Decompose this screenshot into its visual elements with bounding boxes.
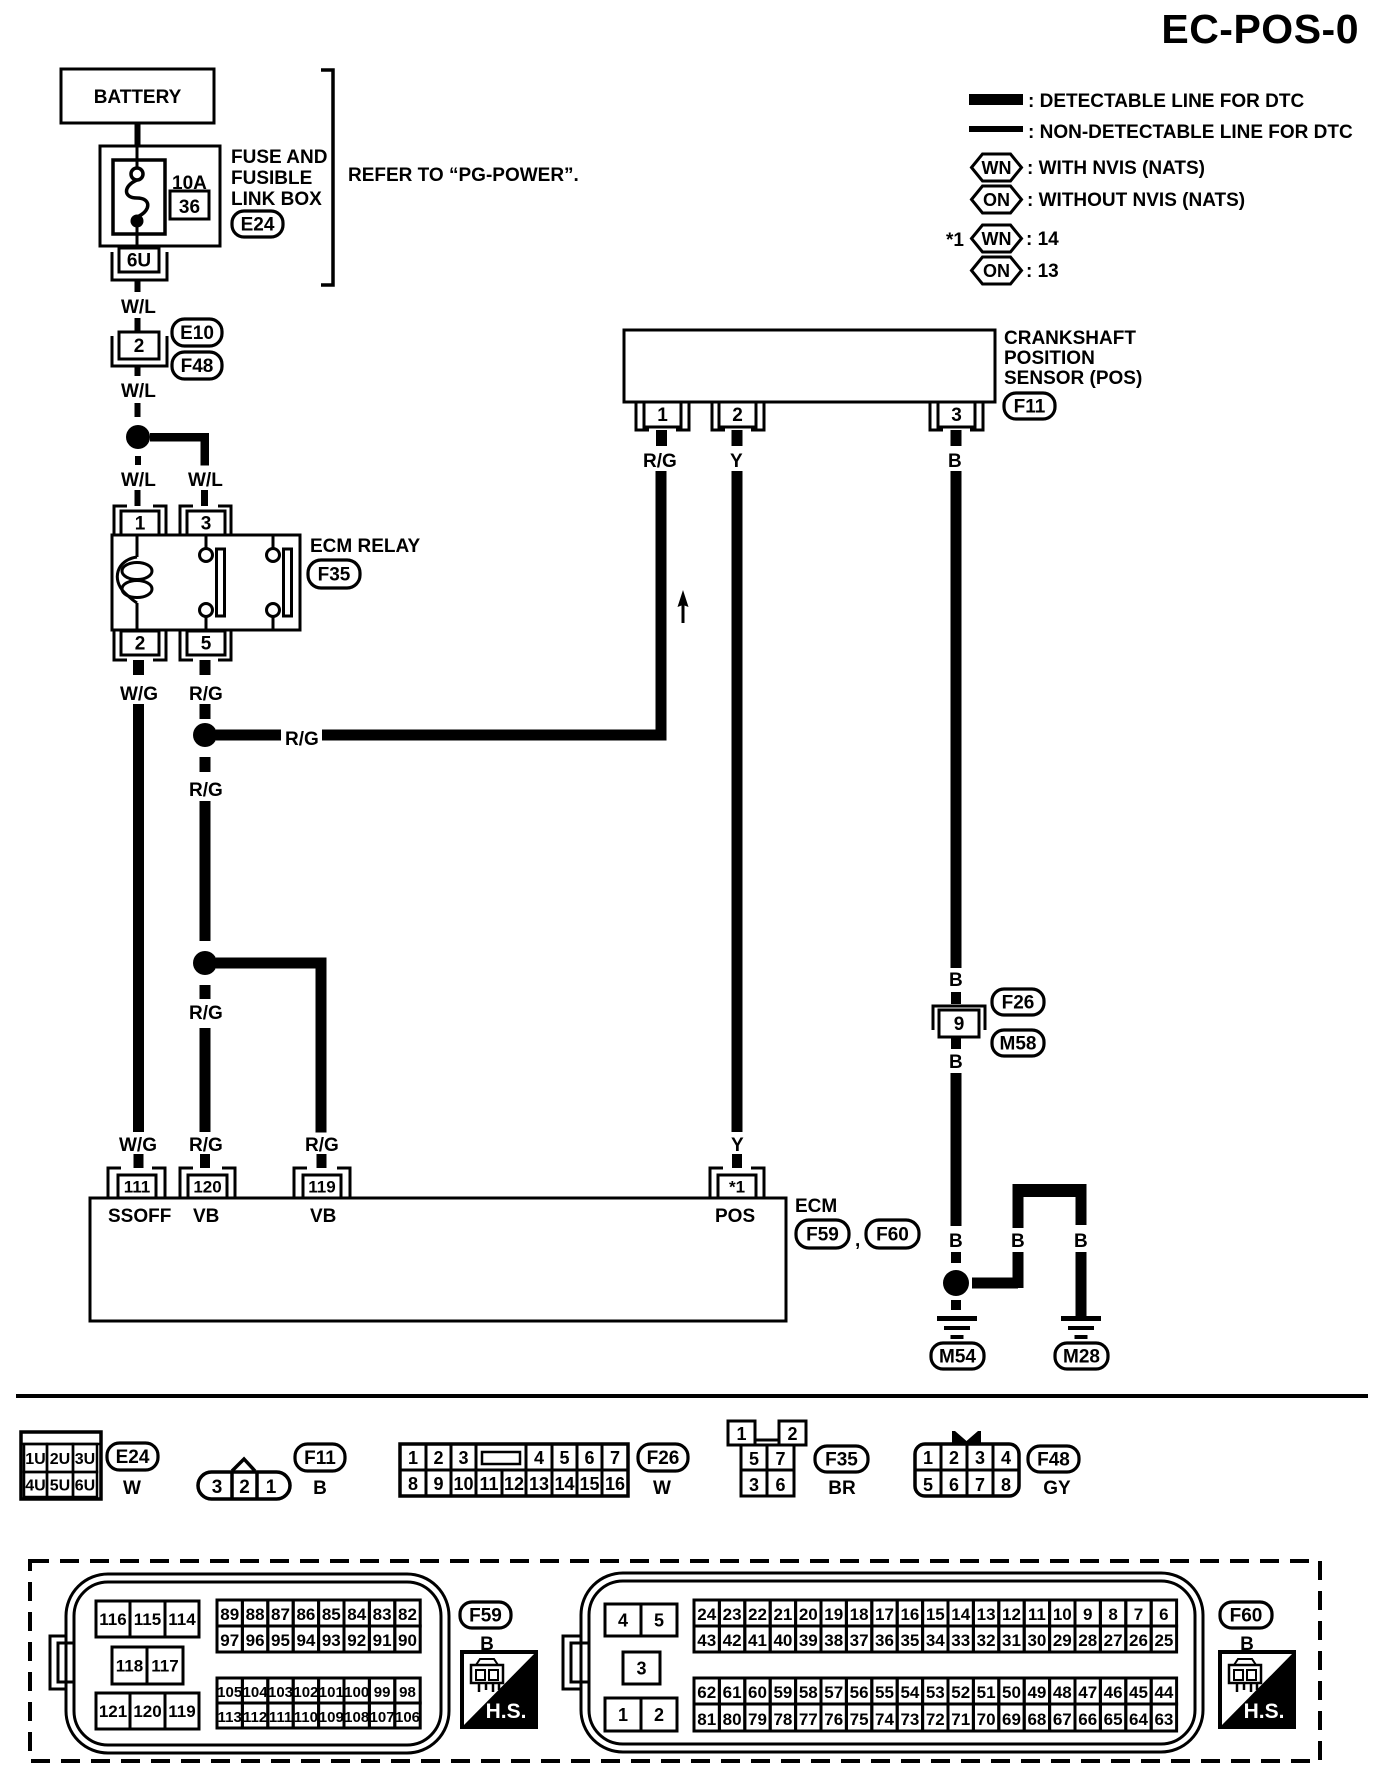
wire label R/G lower — [189, 1135, 223, 1156]
connector F48 oval — [172, 352, 222, 379]
svg-text:1: 1 — [657, 405, 668, 426]
ECM pin 119 — [294, 1168, 350, 1198]
svg-text:BR: BR — [828, 1478, 856, 1499]
svg-text:46: 46 — [1104, 1683, 1123, 1702]
svg-text:121: 121 — [99, 1702, 127, 1721]
comma — [855, 1230, 860, 1251]
svg-text:97: 97 — [220, 1631, 239, 1650]
svg-text:W/G: W/G — [119, 1135, 157, 1156]
svg-text:B: B — [949, 1231, 963, 1252]
ECM label VB 120 — [193, 1206, 219, 1227]
wire R/G stub below relay pin 5 — [200, 660, 211, 675]
svg-text:75: 75 — [850, 1710, 869, 1729]
fuse 10A 36 — [113, 146, 165, 246]
F59 pins 118 117 — [112, 1647, 183, 1684]
ECM connector view F59 outline — [50, 1574, 449, 1753]
svg-text:56: 56 — [850, 1683, 869, 1702]
wire R/G stub below sensor pin 1 — [656, 430, 667, 446]
wire label R/G — [189, 684, 223, 705]
svg-text:20: 20 — [799, 1605, 818, 1624]
label FUSE AND FUSIBLE LINK BOX — [231, 147, 327, 210]
svg-text:R/G: R/G — [189, 684, 223, 705]
svg-text:63: 63 — [1154, 1710, 1173, 1729]
svg-text:68: 68 — [1027, 1710, 1046, 1729]
svg-text:85: 85 — [322, 1605, 341, 1624]
svg-text:2: 2 — [787, 1424, 797, 1444]
svg-text:35: 35 — [900, 1631, 919, 1650]
svg-text:21: 21 — [773, 1605, 792, 1624]
svg-text:W/L: W/L — [121, 470, 156, 491]
svg-text:W: W — [123, 1478, 141, 1499]
svg-text:3: 3 — [212, 1477, 223, 1498]
svg-text:74: 74 — [875, 1710, 894, 1729]
svg-text:90: 90 — [398, 1631, 417, 1650]
svg-text:6U: 6U — [127, 251, 151, 272]
svg-text:R/G: R/G — [643, 451, 677, 472]
junction B ground — [943, 1270, 969, 1296]
svg-text:,: , — [855, 1230, 860, 1251]
legend non-detectable line sample — [969, 126, 1023, 132]
F60 pins 4 5 — [605, 1604, 677, 1636]
svg-text:VB: VB — [193, 1206, 219, 1227]
svg-text:F26: F26 — [647, 1448, 680, 1469]
svg-text:2: 2 — [654, 1705, 664, 1725]
svg-text:111: 111 — [269, 1709, 292, 1726]
svg-text:76: 76 — [824, 1710, 843, 1729]
svg-text:7: 7 — [610, 1448, 620, 1468]
svg-text:W/L: W/L — [121, 381, 156, 402]
label CRANKSHAFT POSITION SENSOR (POS) — [1004, 328, 1142, 389]
wire B vertical to connector 9 — [951, 471, 962, 968]
F59 grid 89-82 / 97-90 — [217, 1600, 420, 1652]
svg-text:M58: M58 — [1000, 1034, 1037, 1055]
wire B vertical to ground junction — [951, 1073, 962, 1226]
svg-text:5: 5 — [559, 1448, 569, 1468]
wire B stub below connector 9 — [951, 1037, 961, 1049]
wire R/G sensor vertical — [656, 471, 667, 730]
relay coil — [117, 535, 152, 630]
svg-text:9: 9 — [954, 1014, 965, 1035]
svg-text:42: 42 — [723, 1631, 742, 1650]
svg-text:60: 60 — [748, 1683, 767, 1702]
wire R/G horizontal to crank sensor pin 1 — [216, 730, 667, 741]
svg-text:1: 1 — [135, 514, 146, 535]
bracket refer to PG-POWER — [321, 70, 333, 285]
connector F60 oval — [866, 1220, 919, 1248]
svg-text:10: 10 — [1053, 1605, 1072, 1624]
svg-text:102: 102 — [293, 1684, 318, 1701]
svg-text:11: 11 — [1028, 1605, 1046, 1624]
svg-text:3U: 3U — [75, 1451, 95, 1468]
legend non-detectable line text — [1028, 122, 1353, 143]
junction R/G to sensor supply — [193, 723, 217, 747]
svg-text:93: 93 — [322, 1631, 341, 1650]
separator line — [16, 1394, 1368, 1398]
svg-text:61: 61 — [723, 1683, 742, 1702]
connector M58 oval — [992, 1030, 1044, 1056]
svg-text:M28: M28 — [1063, 1347, 1100, 1368]
ECM pin 111 — [108, 1168, 165, 1198]
svg-text:108: 108 — [344, 1709, 369, 1726]
svg-text:27: 27 — [1104, 1631, 1123, 1650]
wire label W/L right — [188, 470, 223, 491]
svg-text:25: 25 — [1154, 1631, 1173, 1650]
wire W/L into relay pin 1 — [135, 490, 141, 506]
crankshaft position sensor box F11 — [624, 330, 995, 402]
svg-text:1: 1 — [408, 1448, 418, 1468]
svg-text:: 13: : 13 — [1026, 261, 1059, 282]
connector E24 oval — [232, 211, 283, 237]
svg-text:REFER TO “PG-POWER”.: REFER TO “PG-POWER”. — [348, 165, 579, 186]
svg-text:49: 49 — [1027, 1683, 1046, 1702]
svg-text:: WITHOUT NVIS (NATS): : WITHOUT NVIS (NATS) — [1027, 190, 1245, 211]
wire R/G dash — [200, 704, 211, 719]
svg-text:89: 89 — [220, 1605, 239, 1624]
sensor pin 3 — [930, 402, 983, 430]
svg-text:120: 120 — [133, 1702, 161, 1721]
svg-text:H.S.: H.S. — [486, 1700, 527, 1723]
svg-text:F11: F11 — [1014, 397, 1046, 418]
svg-text:26: 26 — [1129, 1631, 1148, 1650]
svg-text:2: 2 — [949, 1448, 959, 1468]
svg-text:117: 117 — [151, 1656, 178, 1675]
svg-text:92: 92 — [347, 1631, 366, 1650]
svg-text:78: 78 — [773, 1710, 792, 1729]
connector F26 oval — [992, 989, 1044, 1015]
svg-text:W/G: W/G — [120, 684, 158, 705]
svg-text:13: 13 — [977, 1605, 996, 1624]
connector F26 oval label — [638, 1444, 688, 1471]
F60 grid 62-44 / 81-63 — [694, 1678, 1177, 1731]
svg-text:67: 67 — [1053, 1710, 1072, 1729]
svg-text:15: 15 — [926, 1605, 945, 1624]
svg-text:19: 19 — [824, 1605, 843, 1624]
connector E10 oval — [172, 319, 222, 346]
svg-text:3: 3 — [636, 1658, 646, 1678]
wire label W/L left — [121, 470, 156, 491]
F60 pin 3 — [623, 1652, 660, 1684]
junction W/L split — [126, 425, 150, 449]
svg-text:2: 2 — [239, 1477, 250, 1498]
F60 grid 24-6 / 43-25 — [694, 1600, 1177, 1652]
svg-text:83: 83 — [373, 1605, 392, 1624]
connector view F26 — [400, 1444, 628, 1496]
svg-text:39: 39 — [799, 1631, 818, 1650]
ground M54 oval — [931, 1343, 984, 1369]
svg-text:4U: 4U — [25, 1478, 45, 1495]
svg-text:107: 107 — [370, 1709, 395, 1726]
svg-text:R/G: R/G — [305, 1135, 339, 1156]
arrow to next — [678, 590, 689, 623]
note ON hexagon — [972, 257, 1022, 284]
ground M28 — [1061, 1316, 1101, 1339]
svg-text:50: 50 — [1002, 1683, 1021, 1702]
wire label W/L — [121, 381, 156, 402]
ECM pin 120 — [180, 1168, 235, 1198]
svg-text:CRANKSHAFT: CRANKSHAFT — [1004, 328, 1136, 349]
ECM box — [90, 1198, 786, 1321]
svg-text:103: 103 — [268, 1684, 293, 1701]
svg-text:Y: Y — [731, 1135, 744, 1156]
wire W/L dash — [135, 403, 141, 417]
connector F11 oval label — [295, 1444, 345, 1471]
wire W/G stub into ECM 111 — [134, 1154, 144, 1168]
wire B right leg upper — [1076, 1197, 1087, 1225]
svg-text:86: 86 — [296, 1605, 315, 1624]
sensor pin 1 — [636, 402, 689, 430]
wire B dash below junction — [951, 1300, 961, 1310]
svg-text:14: 14 — [951, 1605, 970, 1624]
svg-text:119: 119 — [168, 1702, 195, 1721]
svg-text:109: 109 — [319, 1709, 344, 1726]
wire label W/L — [121, 297, 156, 318]
wire label R/G — [643, 451, 677, 472]
svg-text:3: 3 — [951, 405, 962, 426]
svg-text:29: 29 — [1053, 1631, 1072, 1650]
svg-text:119: 119 — [308, 1177, 335, 1196]
connector view F48 — [915, 1431, 1019, 1496]
svg-text:106: 106 — [395, 1709, 420, 1726]
connector F11 oval — [1004, 393, 1055, 419]
note *1 — [946, 230, 964, 251]
wire R/G to ECM 120 — [200, 1028, 211, 1132]
svg-text:70: 70 — [977, 1710, 996, 1729]
svg-text:F48: F48 — [181, 356, 214, 377]
svg-text:8: 8 — [1108, 1605, 1117, 1624]
svg-text:64: 64 — [1129, 1710, 1148, 1729]
svg-text:F26: F26 — [1002, 993, 1035, 1014]
svg-text:99: 99 — [374, 1684, 391, 1701]
svg-text:43: 43 — [697, 1631, 716, 1650]
wire R/G stub into ECM 119 — [317, 1154, 327, 1168]
svg-text:51: 51 — [977, 1683, 996, 1702]
wire W/L dash — [135, 318, 141, 331]
svg-text:2: 2 — [135, 634, 146, 655]
svg-text:1: 1 — [736, 1424, 746, 1444]
svg-text:12: 12 — [504, 1474, 524, 1494]
ECM connector view F60 outline — [563, 1573, 1203, 1752]
wire label B right leg — [1074, 1231, 1088, 1252]
svg-text:71: 71 — [951, 1710, 970, 1729]
svg-text:100: 100 — [344, 1684, 369, 1701]
svg-text:6U: 6U — [75, 1478, 95, 1495]
H.S. icon F59 — [462, 1652, 536, 1727]
svg-text:48: 48 — [1053, 1683, 1072, 1702]
wire Y stub below sensor pin 2 — [732, 430, 743, 446]
svg-text:12: 12 — [1002, 1605, 1021, 1624]
connector pin 9 F26/M58 — [933, 1006, 985, 1037]
svg-text:84: 84 — [347, 1605, 366, 1624]
svg-text:114: 114 — [168, 1610, 196, 1629]
svg-text:120: 120 — [193, 1177, 221, 1196]
wire label R/G — [189, 1003, 223, 1024]
svg-text:47: 47 — [1078, 1683, 1097, 1702]
wire R/G branch horizontal — [216, 958, 327, 969]
ECM label POS — [715, 1206, 755, 1227]
svg-text:96: 96 — [246, 1631, 265, 1650]
svg-text:66: 66 — [1078, 1710, 1097, 1729]
svg-text:: WITH NVIS (NATS): : WITH NVIS (NATS) — [1027, 158, 1205, 179]
text REFER TO PG-POWER — [348, 165, 579, 186]
svg-text:6: 6 — [775, 1475, 785, 1495]
wire label B — [949, 1052, 963, 1073]
relay pin 3 — [180, 506, 231, 535]
svg-text:28: 28 — [1078, 1631, 1097, 1650]
svg-text:LINK BOX: LINK BOX — [231, 189, 322, 210]
svg-text:41: 41 — [748, 1631, 767, 1650]
svg-text:F48: F48 — [1037, 1450, 1070, 1471]
svg-text:98: 98 — [399, 1684, 416, 1701]
svg-text:2: 2 — [433, 1448, 443, 1468]
svg-text:F35: F35 — [825, 1450, 858, 1471]
svg-text:1U: 1U — [25, 1451, 45, 1468]
svg-text:82: 82 — [398, 1605, 417, 1624]
svg-text:M54: M54 — [939, 1347, 976, 1368]
svg-text:SSOFF: SSOFF — [108, 1206, 171, 1227]
wire label R/G — [189, 780, 223, 801]
label ECM — [795, 1196, 837, 1217]
legend WN text — [1027, 158, 1205, 179]
svg-text:B: B — [313, 1478, 327, 1499]
svg-text:EC-POS-0: EC-POS-0 — [1161, 6, 1359, 52]
F59 grid 105-98 / 113-106 — [217, 1678, 420, 1728]
svg-text:F60: F60 — [1230, 1606, 1263, 1627]
svg-text:13: 13 — [529, 1474, 549, 1494]
color W — [653, 1478, 671, 1499]
relay pin 2 — [114, 631, 166, 660]
svg-text:16: 16 — [605, 1474, 625, 1494]
wire battery to fuse box — [135, 123, 141, 146]
svg-text:34: 34 — [926, 1631, 945, 1650]
svg-text:9: 9 — [433, 1474, 443, 1494]
svg-text:87: 87 — [271, 1605, 290, 1624]
svg-text:37: 37 — [850, 1631, 869, 1650]
svg-text:F59: F59 — [469, 1606, 502, 1627]
fuse number 36 — [170, 191, 209, 219]
svg-text:*1: *1 — [946, 230, 964, 251]
svg-text:80: 80 — [723, 1710, 742, 1729]
svg-text:3: 3 — [201, 514, 212, 535]
color W — [123, 1478, 141, 1499]
svg-text:10: 10 — [453, 1474, 473, 1494]
svg-text:: NON-DETECTABLE LINE FOR DTC: : NON-DETECTABLE LINE FOR DTC — [1028, 122, 1353, 143]
svg-text:B: B — [1011, 1231, 1025, 1252]
svg-text:118: 118 — [116, 1656, 143, 1675]
svg-text:F60: F60 — [876, 1225, 909, 1246]
svg-text:B: B — [948, 451, 962, 472]
wire W/L dash below junction — [135, 456, 141, 465]
svg-text:POS: POS — [715, 1206, 755, 1227]
svg-text:7: 7 — [775, 1449, 785, 1469]
svg-text:BATTERY: BATTERY — [94, 87, 182, 108]
svg-text:101: 101 — [319, 1684, 344, 1701]
connector E24 oval label — [107, 1443, 158, 1470]
svg-text:45: 45 — [1129, 1683, 1148, 1702]
svg-text:23: 23 — [723, 1605, 742, 1624]
svg-text:6: 6 — [584, 1448, 594, 1468]
wire R/G stub into ECM 120 — [200, 1154, 210, 1168]
color B F59 — [480, 1634, 494, 1655]
wire B branch left leg — [1013, 1252, 1024, 1288]
svg-text:112: 112 — [243, 1709, 267, 1726]
ECM pin *1 — [710, 1168, 764, 1198]
wire B dash — [951, 1252, 961, 1263]
svg-text:7: 7 — [1134, 1605, 1143, 1624]
svg-text:116: 116 — [99, 1610, 126, 1629]
svg-text:F59: F59 — [806, 1225, 839, 1246]
svg-text:: DETECTABLE LINE FOR DTC: : DETECTABLE LINE FOR DTC — [1028, 91, 1304, 112]
connector pin 6U — [112, 248, 167, 280]
svg-text:57: 57 — [824, 1683, 843, 1702]
relay pin 5 — [180, 631, 231, 660]
svg-text:3: 3 — [749, 1475, 759, 1495]
svg-text:14: 14 — [554, 1474, 574, 1494]
svg-text:8: 8 — [1001, 1475, 1011, 1495]
svg-text:15: 15 — [579, 1474, 599, 1494]
svg-text:33: 33 — [951, 1631, 970, 1650]
svg-text:36: 36 — [179, 197, 200, 218]
svg-text:77: 77 — [799, 1710, 818, 1729]
wire B left leg upper — [1013, 1197, 1024, 1228]
svg-text:W: W — [653, 1478, 671, 1499]
color B — [313, 1478, 327, 1499]
svg-text:Y: Y — [730, 451, 743, 472]
svg-text:2U: 2U — [50, 1451, 70, 1468]
legend detectable line text — [1028, 91, 1304, 112]
note WN pin 14 — [1026, 229, 1059, 250]
note ON pin 13 — [1026, 261, 1059, 282]
wire Y vertical to ECM POS — [732, 471, 743, 1132]
svg-text:ON: ON — [983, 261, 1010, 281]
H.S. icon F60 — [1220, 1652, 1294, 1727]
svg-text:4: 4 — [534, 1448, 544, 1468]
fuse rating 10A — [172, 173, 207, 194]
svg-text:69: 69 — [1002, 1710, 1021, 1729]
svg-text:72: 72 — [926, 1710, 945, 1729]
svg-text:E24: E24 — [116, 1447, 150, 1468]
wire label W/G lower — [119, 1135, 157, 1156]
svg-text:WN: WN — [982, 229, 1012, 249]
connector F59 oval label — [460, 1602, 511, 1628]
svg-text:115: 115 — [134, 1610, 161, 1629]
wire R/G dash below junction — [200, 757, 211, 772]
svg-text:65: 65 — [1104, 1710, 1123, 1729]
ground M54 — [937, 1316, 977, 1339]
dashed harness detail box — [30, 1561, 1320, 1761]
connector view E24 — [21, 1432, 101, 1499]
svg-text:R/G: R/G — [189, 1135, 223, 1156]
legend WN with NVIS symbol — [972, 154, 1022, 181]
connector F35 oval label — [815, 1446, 868, 1472]
svg-text:FUSE AND: FUSE AND — [231, 147, 327, 168]
svg-text:11: 11 — [479, 1474, 498, 1494]
svg-text:16: 16 — [900, 1605, 919, 1624]
svg-text:81: 81 — [697, 1710, 716, 1729]
svg-text:113: 113 — [218, 1709, 242, 1726]
connector view F35 — [728, 1421, 806, 1496]
F59 pins 121 120 119 — [96, 1693, 199, 1729]
wire label B left leg — [1011, 1231, 1025, 1252]
label ECM RELAY — [310, 536, 420, 557]
connector F48 oval label — [1028, 1446, 1079, 1472]
svg-text:ECM: ECM — [795, 1196, 837, 1217]
wire W/L into relay pin 3 — [201, 490, 208, 506]
svg-text:3: 3 — [975, 1448, 985, 1468]
svg-text:104: 104 — [243, 1684, 269, 1701]
wire label Y lower — [731, 1135, 744, 1156]
svg-text:40: 40 — [773, 1631, 792, 1650]
svg-text:111: 111 — [124, 1177, 151, 1196]
